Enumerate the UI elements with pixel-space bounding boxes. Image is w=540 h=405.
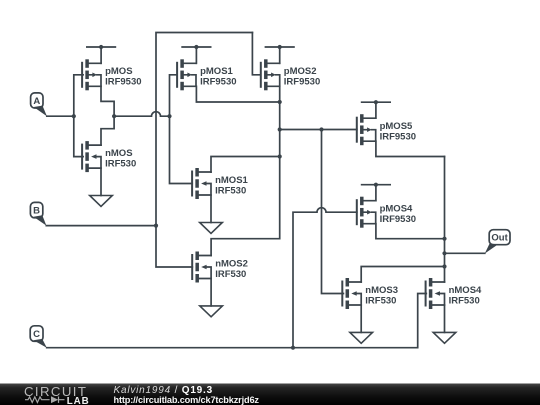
- svg-text:pMOS4: pMOS4: [380, 204, 413, 215]
- wire pMOS drain jog to nMOS drain: [101, 86, 114, 145]
- transistor pMOS IRF9530: [81, 59, 101, 90]
- wire nMOS2 source to ground: [210, 279, 212, 306]
- wire A input: [47, 115, 74, 117]
- node dot out tap: [442, 251, 446, 255]
- transistor nMOS IRF530: [81, 141, 101, 172]
- svg-text:nMOS4: nMOS4: [449, 285, 482, 296]
- wire B vertical to nMOS2 gate and top horizontal: [156, 33, 252, 268]
- node dot supply pMOS4: [374, 183, 378, 187]
- svg-text:IRF9530: IRF9530: [200, 77, 236, 88]
- node dot X branch: [319, 127, 323, 131]
- node dot nMOS1 drain: [278, 154, 282, 158]
- wire nMOS4 drain lead: [444, 267, 446, 283]
- transistor nMOS4 IRF530: [425, 278, 445, 309]
- wire node Abar vertical (pMOS1 gate to nMOS1 gate): [170, 75, 193, 184]
- wire node X to pMOS5 gate: [280, 129, 357, 131]
- transistor nMOS1 IRF530: [191, 168, 211, 199]
- node dot pMOS drains: [278, 100, 282, 104]
- ground below nMOS1: [200, 223, 223, 234]
- svg-text:nMOS: nMOS: [105, 148, 132, 159]
- svg-text:IRF9530: IRF9530: [105, 77, 141, 88]
- wire pMOS4 drain to out node: [376, 224, 445, 239]
- node dot supply pMOS: [99, 45, 103, 49]
- ground below nMOS2: [200, 306, 223, 317]
- wire pMOS2 drain chain down to nMOS2 drain: [211, 86, 280, 255]
- wire nMOS1 source to ground: [210, 195, 212, 223]
- supply rail pMOS1: [182, 47, 211, 63]
- svg-text:C: C: [33, 329, 40, 340]
- svg-text:IRF9530: IRF9530: [284, 77, 320, 88]
- wire pMOS1 drain to node: [196, 86, 279, 102]
- wire nMOS source to ground: [100, 168, 102, 195]
- svg-text:nMOS2: nMOS2: [215, 258, 248, 269]
- node dot supply pMOS5: [374, 100, 378, 104]
- node dot out pMOS4: [442, 237, 446, 241]
- pin A: [31, 93, 47, 116]
- wire nMOS4 source to ground: [444, 305, 446, 332]
- transistor pMOS4 IRF9530: [356, 197, 376, 228]
- wire top right down to pMOS2 gate: [252, 33, 260, 75]
- transistor pMOS2 IRF9530: [260, 59, 280, 90]
- wire node X down to nMOS3 gate: [322, 130, 344, 294]
- node dot C branch: [291, 346, 295, 350]
- pin C: [30, 326, 47, 348]
- svg-text:IRF530: IRF530: [365, 295, 396, 306]
- svg-text:pMOS1: pMOS1: [200, 66, 233, 77]
- svg-text:IRF530: IRF530: [105, 158, 136, 169]
- svg-text:IRF9530: IRF9530: [380, 214, 416, 225]
- node dot supply pMOS2: [278, 45, 282, 49]
- wire C to pMOS4 gate (hop over X vertical): [293, 208, 357, 348]
- svg-text:IRF9530: IRF9530: [380, 132, 416, 143]
- svg-text:pMOS5: pMOS5: [380, 121, 413, 132]
- supply rail pMOS2: [265, 47, 294, 63]
- wire B input: [46, 225, 156, 227]
- svg-text:IRF530: IRF530: [215, 269, 246, 280]
- pin Out: [485, 230, 510, 254]
- transistor nMOS2 IRF530: [191, 252, 211, 283]
- wire pMOS5 drain to out node: [376, 141, 445, 156]
- node dot out nMOS: [442, 264, 446, 268]
- node dot B: [154, 224, 158, 228]
- svg-text:http://circuitlab.com/ck7tcbkz: http://circuitlab.com/ck7tcbkzrjd6z: [114, 395, 260, 405]
- svg-text:Out: Out: [491, 233, 508, 244]
- ground below nMOS: [90, 196, 113, 207]
- transistor pMOS1 IRF9530: [176, 59, 196, 90]
- svg-text:IRF530: IRF530: [449, 295, 480, 306]
- svg-text:B: B: [33, 206, 40, 217]
- wire out node vertical: [444, 157, 446, 267]
- transistor pMOS5 IRF9530: [356, 114, 376, 145]
- wire nMOS1 drain to node X: [211, 157, 280, 173]
- svg-text:nMOS1: nMOS1: [215, 175, 248, 186]
- footer bar: [0, 384, 540, 405]
- wire stage-1 gate vertical (A node to pMOS/nMOS gates): [74, 75, 83, 157]
- node dot A gate: [72, 114, 76, 118]
- svg-text:A: A: [33, 96, 40, 107]
- pin B: [30, 202, 46, 225]
- transistor nMOS3 IRF530: [341, 278, 361, 309]
- supply rail pMOS: [87, 47, 116, 63]
- svg-text:pMOS: pMOS: [105, 66, 132, 77]
- wire inverter output to node Abar (hop over B vertical): [114, 112, 169, 117]
- supply rail pMOS5: [362, 102, 391, 118]
- ground below nMOS4: [433, 332, 456, 343]
- svg-text:LAB: LAB: [67, 396, 90, 405]
- ground below nMOS3: [350, 332, 373, 343]
- node dot supply pMOS1: [194, 45, 198, 49]
- wire Out tap: [445, 252, 485, 254]
- svg-text:pMOS2: pMOS2: [284, 66, 317, 77]
- node dot X left: [278, 127, 282, 131]
- node dot Abar: [167, 114, 171, 118]
- svg-text:IRF530: IRF530: [215, 185, 246, 196]
- svg-text:nMOS3: nMOS3: [365, 285, 398, 296]
- wire nMOS3 drain to out node: [361, 267, 444, 283]
- node dot inverter out: [112, 114, 116, 118]
- footer logo resistor-diode glyph: [25, 397, 65, 403]
- wire nMOS3 source to ground: [360, 305, 362, 332]
- supply rail pMOS4: [362, 185, 391, 201]
- wire C input run: [47, 294, 427, 348]
